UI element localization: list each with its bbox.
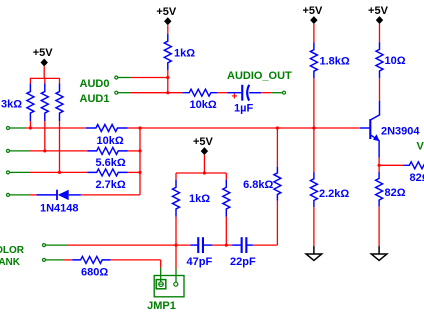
junction 1k/JMP1/row (174, 244, 177, 247)
wire row2 green (10, 150, 29, 152)
capacitor 1µF plates (241, 85, 243, 101)
svg-text:680Ω: 680Ω (81, 267, 108, 279)
capacitor 22pF plates (241, 237, 243, 253)
resistor R 2.2kΩ (310, 172, 317, 207)
svg-text:VIDEO: VIDEO (417, 141, 424, 153)
svg-text:3kΩ: 3kΩ (1, 99, 22, 111)
svg-text:82Ω: 82Ω (410, 172, 424, 184)
wire row2 red (29, 150, 87, 152)
resistor R 680Ω (72, 256, 110, 263)
wire bus vertical (rows 1-4) (139, 128, 141, 195)
wire BLANK red to 680 (63, 259, 72, 261)
svg-text:+5V: +5V (33, 47, 54, 59)
svg-text:+: + (232, 92, 238, 103)
svg-text:82Ω: 82Ω (385, 187, 406, 199)
wire row1 red to 10k (26, 127, 86, 129)
wire row3 green (10, 171, 29, 173)
wire 1uF to AUDIO_OUT terminal (261, 92, 271, 94)
svg-text:AUDIO_OUT: AUDIO_OUT (227, 70, 292, 82)
wire 680 to JMP1 corner (111, 259, 161, 261)
junction mid rail (203, 171, 206, 174)
svg-text:10Ω: 10Ω (385, 55, 406, 67)
wire +5V stem to rail (43, 66, 45, 78)
jumper JMP1 (154, 276, 184, 297)
svg-text:5.6kΩ: 5.6kΩ (96, 157, 126, 169)
wire 2.2k to ground (313, 207, 315, 246)
wire 10Ω to collector (379, 78, 381, 101)
wire 5.6k to bus (128, 150, 141, 152)
wire BLANK green (46, 259, 63, 261)
junction 3k#2/row2 (43, 149, 46, 152)
junction AUD1/1k (166, 91, 169, 94)
wire 3k#3 down to row3 (59, 121, 61, 172)
wire row4 red to diode (30, 194, 37, 196)
terminal row4 (left) (7, 193, 10, 196)
terminal row3 (left) (7, 171, 10, 174)
wire junction to 82Ω (378, 165, 380, 171)
svg-text:22pF: 22pF (230, 256, 256, 268)
svg-text:COLOR: COLOR (0, 245, 25, 256)
wire +5V to 1.8k (313, 24, 315, 43)
junction 6.8k/row1 (276, 126, 279, 129)
wire AUD0 red to 1k line (131, 77, 168, 79)
wire mid-left 1k down to cap row (175, 217, 177, 245)
junction divider/row1 (312, 126, 315, 129)
resistor R 5.6kΩ (87, 147, 127, 154)
svg-text:AUD1: AUD1 (80, 93, 110, 105)
svg-text:JMP1: JMP1 (147, 300, 176, 312)
wire +5V to 1k top (167, 25, 169, 34)
wire AUD1 green (118, 92, 131, 94)
wire 6.8k bottom to 22pF (276, 201, 278, 246)
wire COLOR red to 47pF (68, 244, 190, 246)
svg-text:2.2kΩ: 2.2kΩ (319, 188, 349, 200)
wire row1 green (10, 127, 26, 129)
wire mid +5V stem (203, 155, 205, 173)
wire row1 resistor to bus (128, 127, 141, 129)
resistor R 1kΩ (mid-left) (175, 173, 177, 180)
resistor R 3k #2 (middle) (44, 78, 46, 83)
terminal AUD1 (115, 91, 118, 94)
resistor R 10kΩ (series, AUD1 row) (182, 89, 217, 96)
terminal AUDIO_OUT (283, 91, 286, 94)
resistor R 3k #3 (right) (59, 78, 61, 83)
capacitor 47pF plates (197, 237, 199, 253)
wire emitter junction to 82Ω horizontal (379, 164, 403, 166)
svg-text:+5V: +5V (302, 5, 323, 17)
resistor R 1.8kΩ (310, 43, 317, 79)
svg-text:6.8kΩ: 6.8kΩ (243, 179, 273, 191)
ground (82Ω) (378, 246, 380, 254)
terminal COLOR (43, 244, 46, 247)
wire row1 bus to transistor base (140, 127, 360, 129)
svg-text:2.7kΩ: 2.7kΩ (96, 179, 126, 191)
terminal BLANK (43, 258, 46, 261)
junction bus/row1 (138, 126, 141, 129)
wire emitter to junction (378, 158, 380, 165)
wire mid-right resistor down to cap row (225, 217, 227, 245)
wire AUD0 green (118, 77, 131, 79)
svg-text:BLANK: BLANK (0, 257, 21, 268)
resistor R 2.7kΩ (87, 169, 127, 176)
wire 1k bottom down to AUD1 row (167, 70, 169, 93)
resistor R 10Ω (376, 42, 383, 78)
resistor R 1kΩ (top) (164, 34, 171, 70)
wire mid rail (176, 172, 226, 174)
junction emitter (378, 164, 381, 167)
wire diode to bus corner (81, 194, 140, 196)
resistor R 3k #1 (left) (29, 78, 31, 83)
svg-text:47pF: 47pF (187, 256, 213, 268)
capacitor C 22pF (232, 244, 241, 246)
svg-text:1kΩ: 1kΩ (189, 193, 210, 205)
junction AUD0/1k (166, 76, 169, 79)
wire top rail over 3k resistors (30, 77, 60, 79)
wire between caps (212, 244, 232, 246)
svg-text:1kΩ: 1kΩ (174, 48, 195, 60)
junction 3k#1/row1 (29, 126, 32, 129)
wire COLOR green (46, 244, 68, 246)
svg-text:AUD0: AUD0 (80, 78, 110, 90)
transistor Q 2N3904 (NPN) (371, 101, 380, 120)
resistor R (mid-right, to 47/22pF junction) (225, 173, 227, 180)
wire row4 green (10, 194, 30, 196)
capacitor C 47pF (190, 244, 198, 246)
wire row1 down to 6.8k (276, 128, 278, 167)
terminal AUD0 (115, 76, 118, 79)
wire green into JMP1 pin1 (160, 268, 162, 282)
svg-text:+5V: +5V (368, 5, 389, 17)
svg-text:+5V: +5V (156, 6, 177, 18)
wire 82Ω to ground (378, 207, 380, 246)
svg-text:1µF: 1µF (234, 103, 253, 115)
resistor R 10kΩ (row1) (86, 125, 128, 132)
svg-text:1N4148: 1N4148 (40, 202, 79, 214)
wire 2.7k to bus (128, 171, 141, 173)
diode D 1N4148 (cathode left) (37, 194, 57, 196)
wire +5V to 10Ω (379, 24, 381, 42)
wire row3 red (29, 171, 87, 173)
junction 3k#3/row3 (58, 171, 61, 174)
capacitor C 1µF (polarized) (227, 92, 241, 94)
svg-text:+5V: +5V (193, 136, 214, 148)
wire JMP1 pin2 up to cap row (175, 245, 177, 268)
junction bus/row2 (138, 149, 141, 152)
resistor R 82Ω (horizontal, clipped) (403, 162, 424, 169)
junction mid-res/caps (225, 244, 228, 247)
wire 10k to 1uF (218, 92, 228, 94)
junction bus/row3 (138, 171, 141, 174)
svg-text:1.8kΩ: 1.8kΩ (320, 56, 350, 68)
ground (2.2k) (313, 246, 315, 254)
wire 1.8k down to row1 (313, 78, 315, 172)
wire 3k#2 down to row2 (44, 121, 46, 151)
wire AUD1 red to 10k (130, 92, 182, 94)
terminal row1 (left) (7, 127, 10, 130)
svg-text:10kΩ: 10kΩ (190, 99, 217, 111)
svg-text:2N3904: 2N3904 (381, 125, 420, 137)
terminal row2 (left) (7, 149, 10, 152)
svg-text:10kΩ: 10kΩ (97, 135, 124, 147)
